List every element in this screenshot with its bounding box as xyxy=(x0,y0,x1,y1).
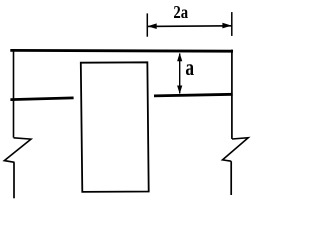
dimension 2a right extension tick xyxy=(231,12,233,36)
dimension a bottom arrowhead xyxy=(177,86,182,94)
dimension 2a line xyxy=(147,25,232,28)
dimension a top arrowhead xyxy=(177,53,182,61)
left wall upper wire xyxy=(13,50,15,138)
top slab line xyxy=(10,49,233,53)
column rectangle xyxy=(81,62,149,192)
dimension 2a left arrowhead xyxy=(148,23,157,29)
svg-text:a: a xyxy=(185,56,194,81)
svg-text:2a: 2a xyxy=(173,1,188,22)
dimension a line xyxy=(179,54,181,94)
left flange thick segment xyxy=(10,98,73,100)
right flange thick segment xyxy=(154,94,233,96)
right break symbol xyxy=(223,138,249,162)
right wall lower wire xyxy=(230,161,232,195)
dimension 2a right arrowhead xyxy=(222,23,231,29)
right wall upper wire xyxy=(231,50,233,139)
left break symbol xyxy=(4,138,31,163)
left wall lower wire xyxy=(13,162,15,198)
dimension 2a left extension tick xyxy=(146,13,148,36)
